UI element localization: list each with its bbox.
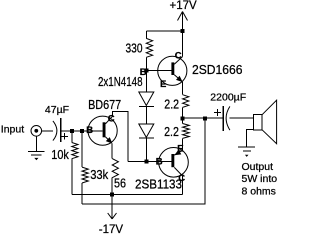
wire: 2SD1666 collector to rail	[182, 31, 184, 57]
wire: output wire to capacitor	[183, 117, 224, 119]
svg-text:5W into: 5W into	[242, 173, 278, 185]
wire: C1 to BD677 base	[62, 130, 103, 132]
svg-text:Output: Output	[242, 161, 274, 173]
wire: 2SD1666 emitter lead	[182, 82, 184, 95]
input connector J1	[31, 126, 53, 137]
capacitor C1 47uF	[53, 118, 68, 142]
svg-text:33k: 33k	[90, 167, 108, 182]
wire: 2SB1133 collector to negative rail	[182, 176, 184, 195]
node: -17V junction	[110, 193, 114, 197]
svg-text:2SB1133: 2SB1133	[135, 177, 182, 192]
svg-text:E: E	[177, 144, 183, 155]
ground (input)	[28, 136, 44, 160]
-17V supply arrow	[108, 195, 117, 219]
node: +17V rail junction	[181, 29, 185, 33]
diode D2 1N4148	[139, 107, 154, 162]
resistor 330	[146, 38, 152, 57]
resistor 2.2 (upper)	[183, 95, 189, 108]
node B (bias chain top)	[145, 68, 149, 72]
Output annotation	[242, 161, 278, 198]
svg-text:Input: Input	[1, 123, 24, 135]
node: 10k tap	[70, 129, 74, 133]
node: 33k tap	[80, 129, 84, 133]
svg-text:2.2: 2.2	[164, 124, 179, 139]
wire: 2SD1666 base wire	[147, 69, 172, 71]
svg-text:E: E	[160, 79, 166, 90]
wire: feedback line (line B)	[82, 118, 205, 204]
wire: negative rail (line A)	[72, 194, 183, 196]
svg-text:56: 56	[114, 176, 126, 191]
wire: 330 top lead	[145, 31, 147, 38]
capacitor C2 2200uF	[214, 106, 230, 131]
wire: BD677 emitter lead	[111, 144, 113, 159]
resistor 33k	[82, 131, 88, 204]
resistor 10k	[72, 131, 78, 195]
svg-text:47µF: 47µF	[45, 104, 69, 116]
svg-text:B: B	[86, 125, 93, 136]
speaker LS1	[253, 100, 276, 144]
svg-text:C: C	[175, 50, 182, 61]
resistor 2.2 (lower)	[183, 118, 190, 150]
svg-text:C: C	[108, 114, 115, 125]
svg-text:2200µF: 2200µF	[210, 92, 246, 104]
node: 2SB1133 base junction	[144, 160, 148, 164]
wire: 330 bottom lead to node B	[145, 57, 147, 70]
node: output junction	[181, 116, 185, 120]
wire: speaker return	[247, 130, 254, 147]
transistor U3 2SB1133 (PNP)	[159, 148, 189, 178]
svg-text:10k: 10k	[51, 147, 69, 162]
wire: C2 to speaker	[230, 117, 254, 119]
svg-text:330: 330	[126, 40, 143, 55]
wire: 2SB1133 base wire	[128, 161, 172, 163]
svg-text:BD677: BD677	[88, 97, 121, 112]
+17V supply arrow	[178, 12, 188, 32]
svg-text:8 ohms: 8 ohms	[242, 186, 276, 198]
svg-text:-17V: -17V	[99, 224, 124, 236]
svg-text:+17V: +17V	[170, 0, 198, 12]
wire: BD677 collector loop to 2SB1133 base node	[113, 111, 128, 161]
transistor U1 2SD1666 (NPN)	[158, 56, 187, 85]
diode D1 1N4148	[139, 70, 154, 106]
transistor U2 BD677 (NPN darlington)	[88, 116, 117, 145]
wire: 2.2 upper bottom lead	[182, 107, 184, 118]
wire: top rail	[146, 30, 182, 32]
svg-text:2x1N4148: 2x1N4148	[98, 74, 143, 89]
svg-text:2SD1666: 2SD1666	[192, 62, 243, 77]
node: feedback tap	[203, 116, 207, 120]
svg-text:2.2: 2.2	[164, 97, 179, 112]
resistor 56	[112, 159, 118, 195]
ground (speaker)	[238, 147, 255, 157]
